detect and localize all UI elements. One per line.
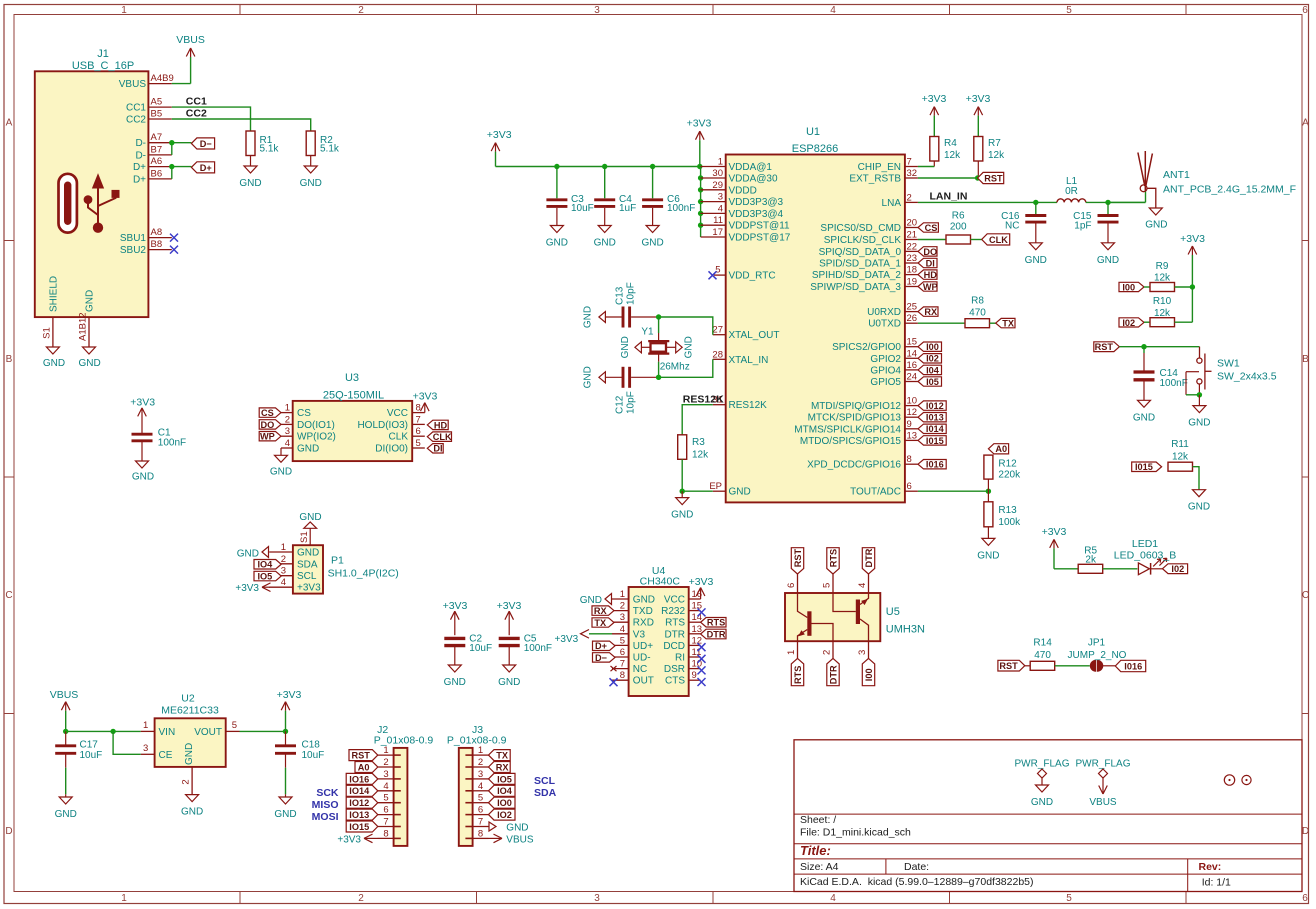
- global label I016: [918, 460, 946, 469]
- connector J1 body: [35, 71, 149, 317]
- svg-text:DO(IO1): DO(IO1): [297, 420, 335, 431]
- J2 pin 8: [378, 837, 394, 839]
- svg-text:12k: 12k: [692, 450, 709, 461]
- U5 pin 2: [832, 641, 834, 658]
- global label I04: [918, 365, 942, 374]
- svg-text:5: 5: [383, 793, 388, 804]
- svg-text:100k: 100k: [998, 517, 1021, 528]
- U3 pin 5 DI(IO0): [412, 447, 425, 449]
- svg-text:7: 7: [416, 414, 421, 425]
- junction: [650, 164, 655, 169]
- J3 pin 6: [473, 814, 489, 816]
- svg-text:9: 9: [907, 419, 912, 430]
- svg-text:R7: R7: [988, 138, 1001, 149]
- resistor R10: [1144, 321, 1150, 323]
- U1 pin 24 GPIO5: [905, 381, 918, 383]
- global label A0: [988, 444, 1008, 454]
- power VBUS at J1: [186, 48, 195, 57]
- svg-text:200: 200: [950, 222, 967, 233]
- U4 pin 12 DCD: [689, 644, 701, 646]
- svg-text:CC2: CC2: [126, 115, 146, 126]
- svg-text:DO: DO: [260, 420, 274, 430]
- svg-text:3: 3: [718, 192, 723, 203]
- U1 pin 18 SPIHD/SD_DATA_2: [905, 274, 918, 276]
- power +3V3 at R4: [930, 107, 939, 116]
- svg-text:5.1k: 5.1k: [320, 144, 340, 155]
- svg-text:U0RXD: U0RXD: [867, 307, 901, 318]
- U1 pin 13 MTDO/SPICS/GPIO15: [905, 439, 918, 441]
- connector J2 body: [394, 748, 408, 846]
- svg-text:I015: I015: [926, 436, 944, 446]
- svg-text:A6: A6: [151, 156, 163, 167]
- svg-text:SCK: SCK: [316, 787, 339, 799]
- svg-text:1: 1: [620, 589, 625, 600]
- svg-text:SPICS0/SD_CMD: SPICS0/SD_CMD: [820, 223, 901, 234]
- global label IO13 at J2: [346, 809, 378, 820]
- svg-text:GND: GND: [270, 467, 292, 478]
- svg-text:26Mhz: 26Mhz: [660, 362, 690, 373]
- crystal Y1 right ground pin: [676, 342, 683, 353]
- global label I013: [918, 413, 946, 422]
- capacitor C17: [65, 731, 67, 744]
- svg-text:4: 4: [718, 203, 723, 214]
- U1 pin 17 VDDPST@17: [701, 236, 726, 238]
- resistor R11: [1168, 462, 1193, 471]
- global label I02 at R10: [1119, 318, 1144, 327]
- IC U2 body: [155, 718, 226, 767]
- U1 pin 10 MTDI/SPIQ/GPIO12: [905, 405, 918, 407]
- svg-text:CC2: CC2: [186, 107, 207, 119]
- power +3V3 at C2: [451, 611, 460, 620]
- svg-text:R8: R8: [971, 296, 984, 307]
- power +3V3 at U4 VCC: [696, 588, 705, 597]
- svg-text:CS: CS: [261, 408, 274, 418]
- svg-text:VCC: VCC: [664, 595, 685, 606]
- svg-text:GND: GND: [85, 290, 96, 312]
- J1 pin B5 (CC2): [148, 118, 171, 120]
- junction: [656, 375, 661, 380]
- svg-text:VDDD: VDDD: [729, 185, 757, 196]
- svg-text:SDA: SDA: [534, 787, 557, 799]
- svg-text:File: D1_mini.kicad_sch: File: D1_mini.kicad_sch: [800, 827, 911, 839]
- svg-text:VBUS: VBUS: [1089, 797, 1117, 808]
- svg-text:CE: CE: [159, 750, 173, 761]
- svg-text:32: 32: [907, 168, 918, 179]
- svg-text:HOLD(IO3): HOLD(IO3): [357, 420, 408, 431]
- svg-text:RES12K: RES12K: [729, 400, 768, 411]
- svg-text:GND: GND: [583, 366, 594, 388]
- svg-text:4: 4: [383, 781, 388, 792]
- svg-text:WP: WP: [260, 432, 275, 442]
- svg-text:+3V3: +3V3: [687, 118, 712, 130]
- ground at C15: [1102, 243, 1115, 250]
- svg-text:1uF: 1uF: [619, 203, 636, 214]
- svg-text:GPIO5: GPIO5: [870, 377, 901, 388]
- resistor R5: [1078, 564, 1103, 573]
- global label IO0 at J3: [489, 797, 516, 808]
- capacitor C14: [1143, 347, 1145, 353]
- global label I02 at LED1: [1163, 564, 1188, 574]
- ground at ANT1: [1149, 208, 1162, 215]
- junction: [602, 164, 607, 169]
- U1 pin 16 GPIO4: [905, 369, 918, 371]
- svg-text:10uF: 10uF: [571, 203, 594, 214]
- global label DTR at U5 pin4: [862, 548, 874, 574]
- J1 pin B8 (SBU2): [148, 249, 171, 251]
- svg-text:11: 11: [713, 215, 723, 226]
- U4 pin 11 RI: [689, 656, 701, 658]
- svg-text:D: D: [1302, 826, 1309, 837]
- svg-text:DI: DI: [433, 444, 442, 454]
- svg-text:GND: GND: [729, 487, 751, 498]
- junction: [680, 489, 685, 494]
- svg-text:100nF: 100nF: [667, 203, 695, 214]
- wire D- junction: [172, 142, 192, 144]
- svg-text:8: 8: [907, 454, 912, 465]
- svg-text:DO: DO: [923, 247, 937, 257]
- svg-text:21: 21: [907, 230, 918, 241]
- ground at J1 GND pin: [83, 347, 96, 354]
- junction: [283, 729, 288, 734]
- svg-text:12k: 12k: [1154, 273, 1171, 284]
- svg-text:25: 25: [907, 302, 918, 313]
- svg-text:TX: TX: [594, 618, 607, 628]
- U5 pin 1: [797, 641, 799, 658]
- U1 pin 27 XTAL_OUT: [713, 334, 726, 336]
- U5 pin 5: [832, 574, 834, 593]
- svg-text:RST: RST: [984, 173, 1003, 183]
- power +3V3 at U1 VDD pins: [696, 131, 705, 140]
- wire VOUT to +3V3: [240, 730, 286, 732]
- power +3V3 at R5: [1050, 539, 1059, 548]
- svg-text:UD+: UD+: [633, 641, 653, 652]
- ground at C5: [503, 665, 516, 672]
- connector J3 body: [459, 748, 473, 846]
- svg-text:R10: R10: [1153, 296, 1172, 307]
- J3 pin 4: [473, 790, 489, 792]
- svg-text:C18: C18: [302, 740, 321, 751]
- svg-text:C17: C17: [80, 740, 99, 751]
- U2 pin 5 VOUT: [226, 730, 240, 732]
- svg-text:DTR: DTR: [664, 629, 685, 640]
- no-connect U4 pin11: [698, 655, 706, 663]
- junction: [1141, 344, 1146, 349]
- transistor Q1 in U5: [798, 593, 834, 641]
- global label I015: [918, 436, 946, 445]
- svg-text:RI: RI: [675, 653, 685, 664]
- svg-text:A8: A8: [151, 227, 163, 238]
- svg-text:PWR_FLAG: PWR_FLAG: [1014, 759, 1069, 770]
- svg-text:GND: GND: [498, 677, 520, 688]
- wire CC2: [172, 119, 311, 131]
- J3 pin 2: [473, 766, 489, 768]
- svg-text:D-: D-: [135, 138, 146, 149]
- svg-text:GND: GND: [1145, 220, 1167, 231]
- ground at C14: [1138, 400, 1151, 407]
- global label A0 at J2: [355, 762, 378, 773]
- svg-text:28: 28: [712, 349, 723, 360]
- U1 pin 31 RES12K: [713, 404, 726, 406]
- U3 pin 1 CS: [281, 412, 293, 414]
- wire R5 to LED1: [1103, 568, 1138, 570]
- svg-text:29: 29: [712, 180, 723, 191]
- svg-text:GND: GND: [671, 510, 693, 521]
- J1 pin A6 (D+): [148, 166, 171, 168]
- transistor Q2 in U5: [833, 593, 869, 641]
- ground at C17: [59, 797, 72, 804]
- svg-text:CC1: CC1: [126, 103, 146, 114]
- svg-text:0R: 0R: [1065, 186, 1078, 197]
- U4 pin 4 V3: [612, 633, 629, 635]
- svg-text:GND: GND: [641, 238, 663, 249]
- U1 pin 32 EXT_RSTB: [905, 177, 918, 179]
- svg-text:GND: GND: [580, 595, 602, 606]
- U2 pin 3 CE: [141, 753, 155, 755]
- svg-text:GND: GND: [297, 548, 319, 559]
- svg-text:+3V3: +3V3: [497, 600, 522, 612]
- global label DI at U3: [427, 444, 443, 453]
- svg-text:+3V3: +3V3: [337, 835, 361, 846]
- U3 pin 4 GND: [281, 447, 293, 449]
- svg-text:GND: GND: [684, 336, 695, 358]
- U1 pin 2 LNA: [905, 201, 918, 203]
- svg-text:C12: C12: [615, 395, 626, 414]
- J1 pin S1 SHIELD: [52, 317, 54, 347]
- svg-text:GND: GND: [977, 550, 999, 561]
- global label CS at U3: [259, 408, 281, 417]
- svg-text:DTR: DTR: [828, 665, 838, 684]
- resistor R9: [1144, 286, 1150, 288]
- U4 pin 13 DTR: [689, 633, 701, 635]
- svg-text:2: 2: [907, 192, 912, 203]
- antenna ANT1: [1145, 192, 1147, 203]
- global label I00: [918, 342, 942, 351]
- U1 pin 19 SPIWP/SD_DATA_3: [905, 286, 918, 288]
- svg-text:SDA: SDA: [297, 559, 318, 570]
- svg-text:Sheet: /: Sheet: /: [800, 814, 836, 826]
- ground at J1 shield: [46, 347, 59, 354]
- no-connect U4 pin12: [698, 643, 706, 651]
- U4 pin 7 NC: [612, 668, 629, 670]
- svg-text:8: 8: [416, 403, 421, 414]
- svg-text:2: 2: [620, 601, 625, 612]
- svg-text:D+: D+: [133, 162, 146, 173]
- svg-text:2: 2: [358, 5, 364, 16]
- svg-text:I015: I015: [1135, 462, 1153, 472]
- svg-text:C: C: [5, 590, 12, 601]
- svg-text:WP: WP: [923, 282, 938, 292]
- power +3V3 at R9: [1188, 246, 1197, 255]
- svg-text:13: 13: [692, 624, 703, 635]
- svg-text:CS: CS: [297, 408, 311, 419]
- svg-text:I00: I00: [864, 668, 874, 681]
- svg-text:470: 470: [969, 308, 986, 319]
- U4 pin 6 UD-: [612, 656, 629, 658]
- svg-text:HD: HD: [924, 270, 938, 280]
- svg-text:2k: 2k: [1085, 554, 1097, 565]
- junction: [1197, 392, 1202, 397]
- U3 pin 6 CLK: [412, 435, 425, 437]
- junction: [698, 199, 703, 204]
- no-connect SBU2: [170, 246, 178, 254]
- svg-text:16: 16: [907, 360, 918, 371]
- U1 pin 5 VDD_RTC: [714, 274, 726, 276]
- capacitor C13: [599, 312, 606, 323]
- svg-text:EXT_RSTB: EXT_RSTB: [849, 174, 901, 185]
- svg-text:I016: I016: [926, 460, 944, 470]
- svg-text:+3V3: +3V3: [487, 129, 512, 141]
- svg-text:15: 15: [692, 601, 703, 612]
- wire EXT_RSTB to RST: [918, 177, 978, 179]
- U4 pin 10 DSR: [689, 668, 701, 670]
- svg-text:SPICS2/GPIO0: SPICS2/GPIO0: [832, 342, 901, 353]
- svg-text:RTS: RTS: [707, 618, 725, 628]
- J3 pin 1: [473, 754, 489, 756]
- svg-text:12k: 12k: [1154, 308, 1171, 319]
- svg-text:UMH3N: UMH3N: [886, 624, 925, 636]
- U1 pin 9 MTMS/SPICLK/GPIO14: [905, 428, 918, 430]
- svg-text:4: 4: [285, 438, 290, 449]
- U1 pin 4 VDD3P3@4: [701, 212, 726, 214]
- global label DTR at U4: [701, 629, 726, 639]
- svg-text:4: 4: [281, 577, 286, 588]
- svg-text:I00: I00: [926, 342, 939, 352]
- power GND arrow at U4 pin1: [605, 594, 612, 605]
- svg-text:R9: R9: [1156, 261, 1169, 272]
- svg-text:DI: DI: [926, 258, 935, 268]
- svg-text:10uF: 10uF: [469, 643, 492, 654]
- svg-text:GND: GND: [1188, 418, 1210, 429]
- svg-text:B8: B8: [151, 239, 163, 250]
- capacitor C3: [556, 167, 558, 199]
- U1 pin 25 U0RXD: [905, 311, 918, 313]
- svg-text:R11: R11: [1171, 439, 1189, 450]
- U3 pin 7 HOLD(IO3): [412, 423, 425, 425]
- svg-text:GND: GND: [583, 306, 594, 328]
- svg-text:RX: RX: [496, 762, 510, 772]
- svg-text:I04: I04: [926, 365, 940, 375]
- svg-text:VIN: VIN: [159, 727, 176, 738]
- U2 pin 1 VIN: [141, 730, 155, 732]
- svg-text:+3V3: +3V3: [277, 689, 302, 701]
- ground at C18: [279, 797, 292, 804]
- svg-text:B7: B7: [151, 144, 163, 155]
- resistor R3: [678, 435, 687, 460]
- svg-text:GPIO2: GPIO2: [870, 354, 901, 365]
- power +3V3 at J2 pin8: [364, 834, 373, 843]
- svg-text:6: 6: [907, 481, 912, 492]
- svg-text:7: 7: [620, 659, 625, 670]
- svg-text:A0: A0: [358, 762, 370, 772]
- svg-text:SPICLK/SD_CLK: SPICLK/SD_CLK: [824, 235, 902, 246]
- global label DO: [918, 247, 937, 256]
- U1 pin 21 SPICLK/SD_CLK: [905, 239, 918, 241]
- resistor R8: [918, 322, 965, 324]
- svg-text:4: 4: [830, 5, 836, 16]
- svg-text:SBU2: SBU2: [120, 245, 147, 256]
- svg-text:GND: GND: [274, 809, 296, 820]
- J1 pin A7 (D-): [148, 142, 171, 144]
- connector P1 body: [293, 545, 323, 593]
- IC U1 body: [726, 155, 905, 503]
- svg-text:R3: R3: [692, 437, 705, 448]
- J3 pin 3: [473, 778, 489, 780]
- svg-text:P_01x08-0.9: P_01x08-0.9: [447, 734, 507, 746]
- svg-text:I014: I014: [926, 424, 945, 434]
- U4 pin 5 UD+: [612, 644, 629, 646]
- resistor R4: [930, 137, 939, 162]
- J1 pin A1B12 GND: [88, 317, 90, 347]
- global label HD at U3: [427, 420, 448, 429]
- svg-text:3: 3: [594, 5, 600, 16]
- global label DI: [918, 258, 937, 267]
- svg-text:6: 6: [1302, 5, 1308, 16]
- svg-text:CLK: CLK: [433, 432, 452, 442]
- svg-text:GND: GND: [594, 238, 616, 249]
- svg-text:5: 5: [232, 720, 237, 731]
- U1 pin 11 VDDPST@11: [701, 224, 726, 226]
- U1 pin 8 XPD_DCDC/GPIO16: [905, 463, 918, 465]
- global label CS: [918, 223, 938, 232]
- wire +3V3 to R5: [1054, 568, 1078, 570]
- U1 pin 20 SPICS0/SD_CMD: [905, 227, 918, 229]
- svg-text:V3: V3: [633, 629, 646, 640]
- svg-text:VOUT: VOUT: [194, 727, 222, 738]
- svg-text:GND: GND: [444, 677, 466, 688]
- global label TX at J3: [489, 750, 511, 761]
- svg-text:U1: U1: [806, 126, 820, 138]
- power VBUS at U2: [61, 702, 70, 711]
- svg-text:A: A: [1302, 118, 1309, 129]
- svg-text:IO4: IO4: [497, 786, 513, 796]
- U5 pin 3: [868, 641, 870, 658]
- svg-text:I05: I05: [926, 377, 939, 387]
- svg-text:12: 12: [907, 407, 918, 418]
- global label RTS at U5 pin1: [791, 658, 803, 685]
- svg-text:+3V3: +3V3: [555, 634, 579, 645]
- svg-text:470: 470: [1034, 650, 1051, 661]
- wire LNA net LAN_IN: [918, 201, 1057, 203]
- svg-text:TOUT/ADC: TOUT/ADC: [850, 487, 901, 498]
- svg-text:NC: NC: [1005, 220, 1019, 231]
- P1 pin 1 GND: [269, 551, 293, 553]
- svg-text:IO4: IO4: [257, 560, 273, 570]
- wire CHIP_EN to R4: [918, 166, 934, 168]
- wire C13 to XTAL_OUT: [659, 317, 713, 335]
- svg-text:Y1: Y1: [641, 327, 654, 338]
- global label CLK: [982, 234, 1010, 245]
- svg-text:2: 2: [821, 650, 832, 655]
- wire CE branch: [113, 731, 141, 754]
- capacitor C18: [285, 731, 287, 744]
- svg-text:VBUS: VBUS: [50, 689, 79, 701]
- svg-text:4: 4: [830, 893, 836, 904]
- svg-text:1: 1: [786, 650, 797, 655]
- global label D-: [191, 138, 214, 149]
- J3 pin 5: [473, 802, 489, 804]
- svg-text:100nF: 100nF: [158, 437, 186, 448]
- svg-text:I012: I012: [926, 401, 944, 411]
- global label RST: [978, 172, 1004, 183]
- global label RTS at U4: [701, 618, 726, 628]
- J3 pin 8: [473, 837, 489, 839]
- svg-text:4: 4: [478, 781, 483, 792]
- svg-text:8: 8: [478, 828, 483, 839]
- svg-text:3: 3: [285, 426, 290, 437]
- svg-text:GND: GND: [1188, 502, 1210, 513]
- wire RES12K to R3: [682, 405, 713, 435]
- svg-text:RST: RST: [1095, 342, 1114, 352]
